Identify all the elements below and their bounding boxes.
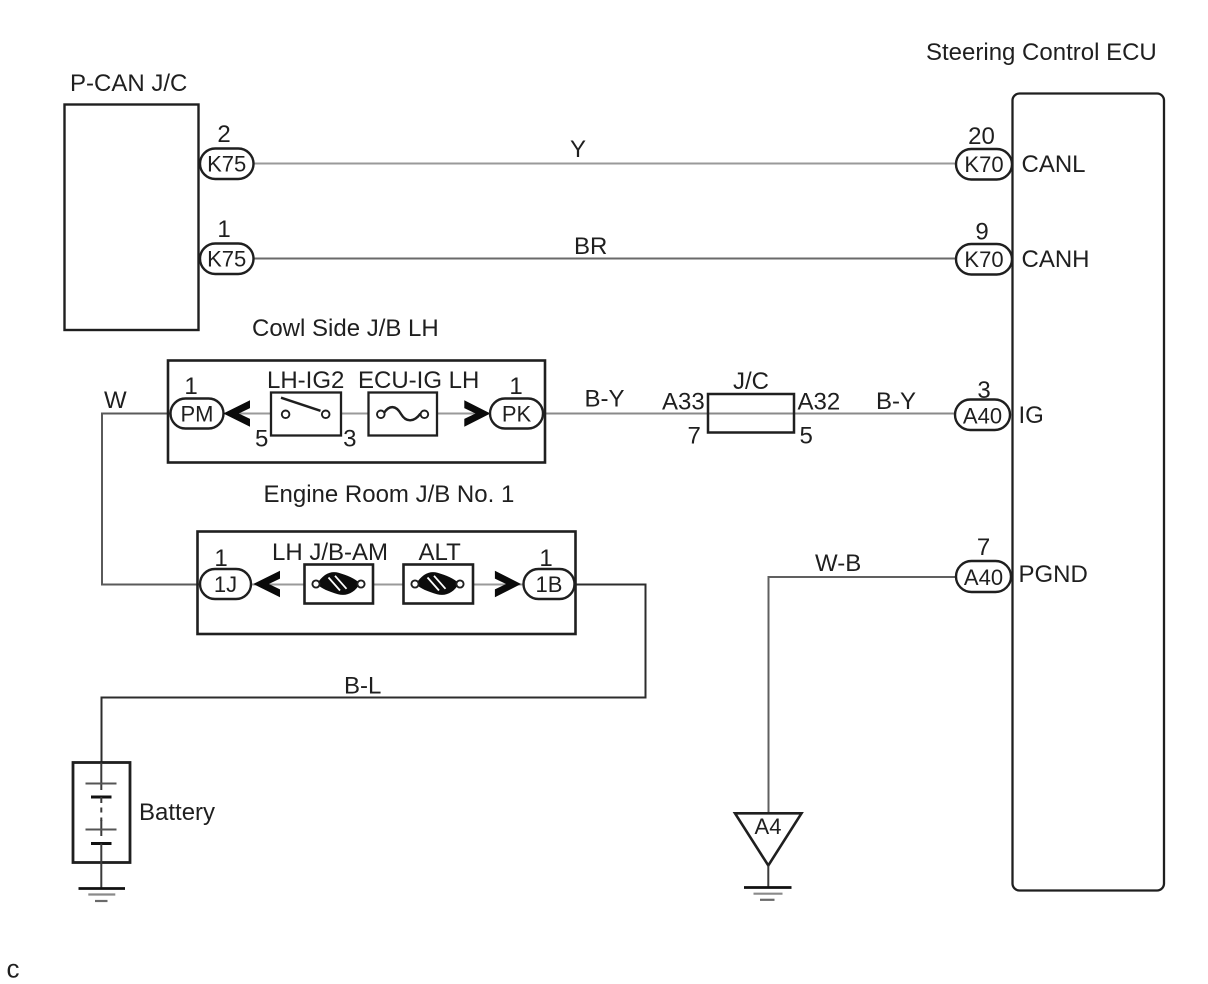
svg-text:PM: PM xyxy=(181,402,214,427)
svg-text:5: 5 xyxy=(800,423,813,450)
svg-text:3: 3 xyxy=(977,377,990,404)
svg-text:LH J/B-AM: LH J/B-AM xyxy=(272,539,388,566)
svg-text:c: c xyxy=(7,954,20,984)
connector PK pin 1 xyxy=(490,399,543,429)
svg-text:J/C: J/C xyxy=(733,368,769,395)
battery internals xyxy=(100,763,102,791)
svg-text:9: 9 xyxy=(975,219,988,246)
svg-text:A40: A40 xyxy=(964,565,1003,590)
wire W (PM to 1J via left vertical) xyxy=(102,414,201,585)
svg-text:PGND: PGND xyxy=(1019,561,1088,588)
fusible link element xyxy=(317,572,360,595)
svg-text:PK: PK xyxy=(502,402,532,427)
ground under battery xyxy=(100,863,102,889)
connector PM pin 1 xyxy=(171,399,224,429)
connector A40 pin 3 xyxy=(955,400,1010,431)
svg-text:W: W xyxy=(104,387,127,414)
svg-text:K70: K70 xyxy=(964,152,1003,177)
svg-text:B-Y: B-Y xyxy=(585,386,625,413)
connector K70 pin 9 xyxy=(956,244,1012,275)
svg-text:Battery: Battery xyxy=(139,799,215,826)
fuse ECU-IG LH box xyxy=(369,393,438,436)
svg-text:CANH: CANH xyxy=(1022,246,1090,273)
svg-text:K70: K70 xyxy=(964,247,1003,272)
wire B-L (1B to Battery) xyxy=(102,585,646,764)
connector K75 pin 1 xyxy=(200,244,254,275)
svg-text:Engine Room J/B No. 1: Engine Room J/B No. 1 xyxy=(264,481,515,508)
svg-text:2: 2 xyxy=(217,121,230,148)
wire BR (K75-1 to K70-9) xyxy=(253,258,957,260)
wire inside Engine Room J/B (1J to 1B) xyxy=(250,584,525,586)
wire W-B (A40-7 to ground A4) xyxy=(769,577,957,814)
junction connector J/C box xyxy=(708,394,794,433)
switch LH-IG2 box xyxy=(271,393,341,436)
svg-text:A32: A32 xyxy=(798,389,841,416)
svg-text:K75: K75 xyxy=(207,247,246,272)
svg-text:3: 3 xyxy=(343,426,356,453)
svg-text:A40: A40 xyxy=(963,404,1002,429)
svg-text:ECU-IG LH: ECU-IG LH xyxy=(358,367,479,394)
svg-text:20: 20 xyxy=(968,123,995,150)
ground under A4 xyxy=(767,866,769,888)
connector 1J pin 1 xyxy=(200,569,251,599)
svg-text:P-CAN J/C: P-CAN J/C xyxy=(70,70,187,97)
connector K75 pin 2 xyxy=(200,149,254,180)
svg-text:IG: IG xyxy=(1019,402,1044,429)
svg-text:5: 5 xyxy=(255,426,268,453)
connector K70 pin 20 xyxy=(956,149,1012,180)
svg-text:Y: Y xyxy=(570,136,586,163)
fuse element xyxy=(384,407,421,420)
Engine Room J/B No. 1 box xyxy=(198,532,576,635)
svg-text:BR: BR xyxy=(574,233,607,260)
connector 1B pin 1 xyxy=(524,569,575,599)
arrow out of engine J/B (right chevron) xyxy=(495,571,521,597)
fusible link element xyxy=(416,572,459,595)
battery box xyxy=(73,763,130,863)
wire B-Y (PK to J/C to A40-3) xyxy=(542,413,956,415)
svg-text:K75: K75 xyxy=(207,152,246,177)
Steering Control ECU box xyxy=(1013,94,1165,891)
svg-text:1: 1 xyxy=(509,373,522,400)
svg-text:7: 7 xyxy=(688,423,701,450)
svg-text:W-B: W-B xyxy=(815,550,861,577)
Cowl Side J/B LH box xyxy=(168,361,545,463)
svg-text:Steering Control ECU: Steering Control ECU xyxy=(926,39,1157,66)
wire Y (K75-2 to K70-20) xyxy=(253,163,957,165)
svg-text:1: 1 xyxy=(184,373,197,400)
svg-text:1: 1 xyxy=(539,545,552,572)
fusible link ALT box xyxy=(404,565,474,604)
svg-text:1: 1 xyxy=(217,216,230,243)
svg-text:Cowl Side J/B LH: Cowl Side J/B LH xyxy=(252,315,439,342)
svg-text:A4: A4 xyxy=(755,814,782,839)
svg-text:A33: A33 xyxy=(662,389,705,416)
P-CAN J/C box xyxy=(65,105,199,331)
svg-text:1B: 1B xyxy=(536,572,563,597)
ground connector A4 triangle xyxy=(735,813,802,865)
switch contacts and lever xyxy=(281,398,321,411)
arrow into cowl J/B (left chevron) xyxy=(223,400,250,426)
svg-text:7: 7 xyxy=(977,534,990,561)
svg-text:1: 1 xyxy=(214,545,227,572)
fusible link LH J/B-AM box xyxy=(305,565,374,604)
wire inside Cowl Side J/B (PM to PK) xyxy=(222,413,492,415)
arrow into engine J/B (left chevron) xyxy=(253,571,280,597)
svg-text:CANL: CANL xyxy=(1022,151,1086,178)
svg-text:B-L: B-L xyxy=(344,673,381,700)
arrow out of cowl J/B (right chevron) xyxy=(464,400,490,426)
svg-text:1J: 1J xyxy=(214,572,237,597)
connector A40 pin 7 xyxy=(956,561,1011,592)
svg-text:ALT: ALT xyxy=(419,539,462,566)
svg-text:B-Y: B-Y xyxy=(876,388,916,415)
svg-text:LH-IG2: LH-IG2 xyxy=(267,367,344,394)
